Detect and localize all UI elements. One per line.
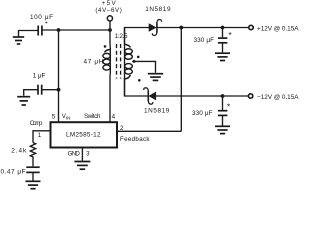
wire 1uF left plate to ground	[24, 90, 38, 96]
polarity dot secondary lower	[138, 79, 141, 82]
svg-text:*: *	[228, 30, 232, 40]
wire feedback horizontal	[117, 130, 181, 132]
node junction 330uF top	[221, 26, 225, 30]
resistor R1 2.4k	[30, 143, 35, 167]
wire 330uF top branch	[222, 28, 224, 38]
node center tap	[133, 60, 136, 63]
svg-text:100 μF: 100 μF	[30, 14, 53, 21]
svg-text:4: 4	[112, 114, 116, 121]
transformer T1 secondary winding lower	[125, 64, 133, 79]
svg-text:1: 1	[38, 132, 42, 139]
ground (center tap)	[148, 74, 163, 81]
transformer T1 primary line	[109, 30, 111, 122]
wire secondary top to D1	[125, 28, 150, 44]
svg-text:1N5819: 1N5819	[144, 107, 170, 114]
svg-text:5: 5	[52, 114, 56, 121]
svg-text:+12V @ 0.15A: +12V @ 0.15A	[257, 25, 299, 32]
capacitor C2 1uF	[38, 85, 42, 95]
node junction feedback tap	[179, 26, 183, 30]
diode D2 1N5819	[144, 88, 156, 104]
ground (100uF input cap)	[13, 37, 24, 44]
wire +5V to rail	[109, 21, 111, 30]
node junction +5V/primary	[108, 28, 112, 32]
transformer T1 secondary winding upper	[125, 44, 133, 59]
svg-text:Comp: Comp	[30, 120, 43, 127]
wire C5 to ground	[32, 172, 34, 180]
wire +12V rail	[157, 27, 249, 29]
svg-text:330 μF: 330 μF	[192, 110, 213, 117]
ground (C3)	[215, 53, 230, 60]
polarity dot primary	[104, 45, 107, 48]
svg-text:3: 3	[86, 151, 90, 158]
IC U1 LM2585-12	[51, 122, 118, 147]
terminal -12V	[248, 94, 252, 98]
wire secondary bottom to D2	[125, 78, 149, 96]
wire 330uF bottom branch	[222, 96, 224, 110]
ground (IC pin 3)	[74, 162, 90, 170]
svg-text:0.47 μF: 0.47 μF	[1, 168, 26, 175]
svg-text:1N5819: 1N5819	[145, 6, 171, 13]
wire 1uF rail	[42, 89, 59, 91]
svg-text:Switch: Switch	[84, 113, 101, 120]
svg-text:(4V–6V): (4V–6V)	[95, 7, 122, 14]
transformer T1 secondary line	[124, 28, 126, 97]
capacitor C1 100uF	[38, 26, 42, 36]
svg-text:47 μH: 47 μH	[84, 58, 104, 65]
diode D1 1N5819	[149, 20, 162, 36]
transformer core	[117, 44, 121, 79]
svg-text:1 μF: 1 μF	[33, 73, 46, 80]
svg-text:1:2.5: 1:2.5	[115, 33, 128, 40]
ground (C4)	[215, 126, 230, 133]
capacitor C5 0.47uF	[26, 167, 39, 172]
node junction C1/VIN	[57, 28, 61, 32]
capacitor C4 330uF	[218, 111, 228, 116]
capacitor C3 330uF	[218, 38, 228, 43]
wire -12V rail	[156, 95, 249, 97]
svg-text:*: *	[227, 101, 231, 111]
svg-text:−12V @ 0.15A: −12V @ 0.15A	[257, 94, 299, 101]
svg-text:IN: IN	[66, 116, 71, 121]
polarity dot secondary upper	[137, 56, 140, 59]
wire GND pin	[81, 148, 83, 161]
ground (C5)	[26, 181, 41, 188]
svg-text:+: +	[45, 21, 48, 27]
terminal +12V	[249, 25, 253, 29]
svg-text:GND: GND	[68, 151, 81, 158]
svg-text:330 μF: 330 μF	[194, 37, 215, 44]
svg-text:2: 2	[120, 125, 124, 132]
wire VIN vertical	[58, 30, 60, 122]
wire comp pin to R1	[33, 131, 51, 143]
svg-text:Feedback: Feedback	[120, 136, 150, 143]
wire 100uF left plate to ground	[19, 31, 39, 37]
terminal +5V	[107, 16, 112, 21]
wire input rail	[42, 29, 110, 31]
ground (1uF cap)	[17, 97, 30, 105]
node junction 330uF bottom	[221, 94, 225, 98]
wire center tap to ground	[132, 61, 155, 72]
svg-text:LM2585-12: LM2585-12	[66, 131, 101, 138]
svg-text:2.4k: 2.4k	[11, 147, 27, 154]
wire feedback vertical	[180, 28, 182, 132]
svg-text:+5V: +5V	[102, 0, 117, 7]
transformer T1 primary winding	[103, 50, 110, 71]
node junction 1uF/VIN	[57, 88, 61, 92]
